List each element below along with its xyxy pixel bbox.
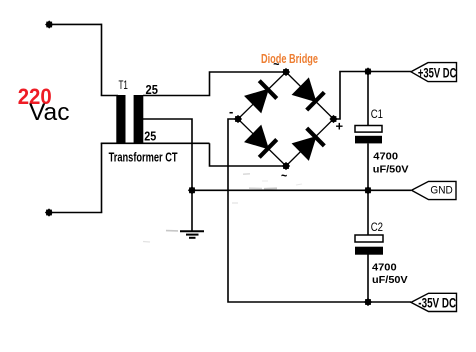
diode D4 (bottom to right) [291,127,325,161]
svg-text:GND: GND [430,184,452,196]
svg-text:Diode Bridge: Diode Bridge [261,51,318,66]
capacitor C2 bottom plate [355,247,383,255]
bridge edge top-left [238,72,286,119]
wire secondary bottom to bridge [210,143,287,166]
svg-text:-: - [229,104,233,119]
svg-text:+35V DC: +35V DC [418,65,457,80]
node negative rail junction [364,298,372,306]
svg-text:Vac: Vac [29,99,70,126]
diode D1 (left to top) [244,80,278,114]
svg-text:Transformer CT: Transformer CT [109,150,178,165]
svg-text:25: 25 [144,128,156,143]
node positive rail junction [364,67,372,75]
wire C2 bottom [367,255,369,303]
diode D3 (left to bottom) [244,124,278,158]
wire C2 top [367,190,369,235]
svg-text:uF/50V: uF/50V [373,164,409,176]
capacitor C1 top plate [355,126,382,133]
wire secondary top [143,72,286,96]
svg-text:T1: T1 [119,80,128,92]
terminal top-left [45,20,53,28]
node bridge left [234,115,242,123]
tag GND [412,181,457,199]
wire GND rail [192,189,411,191]
svg-text:-35V DC: -35V DC [418,296,456,311]
ground [180,231,204,238]
bridge edge top-right [286,72,334,119]
node bridge top [282,68,290,76]
node GND junction [364,186,372,194]
wire primary top vertical [101,24,103,96]
wire C1 bottom [367,143,369,190]
wire center tap [143,119,192,231]
wire primary top to winding [101,95,118,97]
svg-text:C2: C2 [371,222,383,234]
svg-text:C1: C1 [371,109,383,121]
node bridge bottom [282,162,290,170]
bridge edge bottom-right [286,119,334,166]
terminal bottom-left [45,208,53,216]
tag +35V DC [411,63,457,82]
wire under transformer [101,142,210,144]
wire primary bottom vertical [101,143,103,212]
wire C1 top [367,72,369,127]
tag -35V DC [411,293,457,311]
svg-text:4700: 4700 [373,151,398,163]
wire primary bottom horizontal [49,212,102,214]
transformer T1 secondary winding [134,95,144,144]
capacitor C1 bottom plate [355,136,382,144]
wire negative rail vertical [228,119,411,302]
diode D2 (top to right) [291,77,325,111]
svg-text:uF/50V: uF/50V [372,274,408,286]
node bridge right [329,115,337,123]
svg-text:25: 25 [146,82,158,97]
svg-text:~: ~ [273,57,280,72]
wire positive rail [334,72,412,120]
transformer T1 primary winding [116,95,125,144]
svg-text:+: + [336,119,344,134]
wire primary top horizontal [49,23,102,25]
svg-text:4700: 4700 [372,262,397,274]
capacitor C2 top plate [355,235,383,242]
bridge edge bottom-left [238,119,286,166]
svg-text:~: ~ [281,168,288,183]
node center-tap junction [188,186,196,194]
